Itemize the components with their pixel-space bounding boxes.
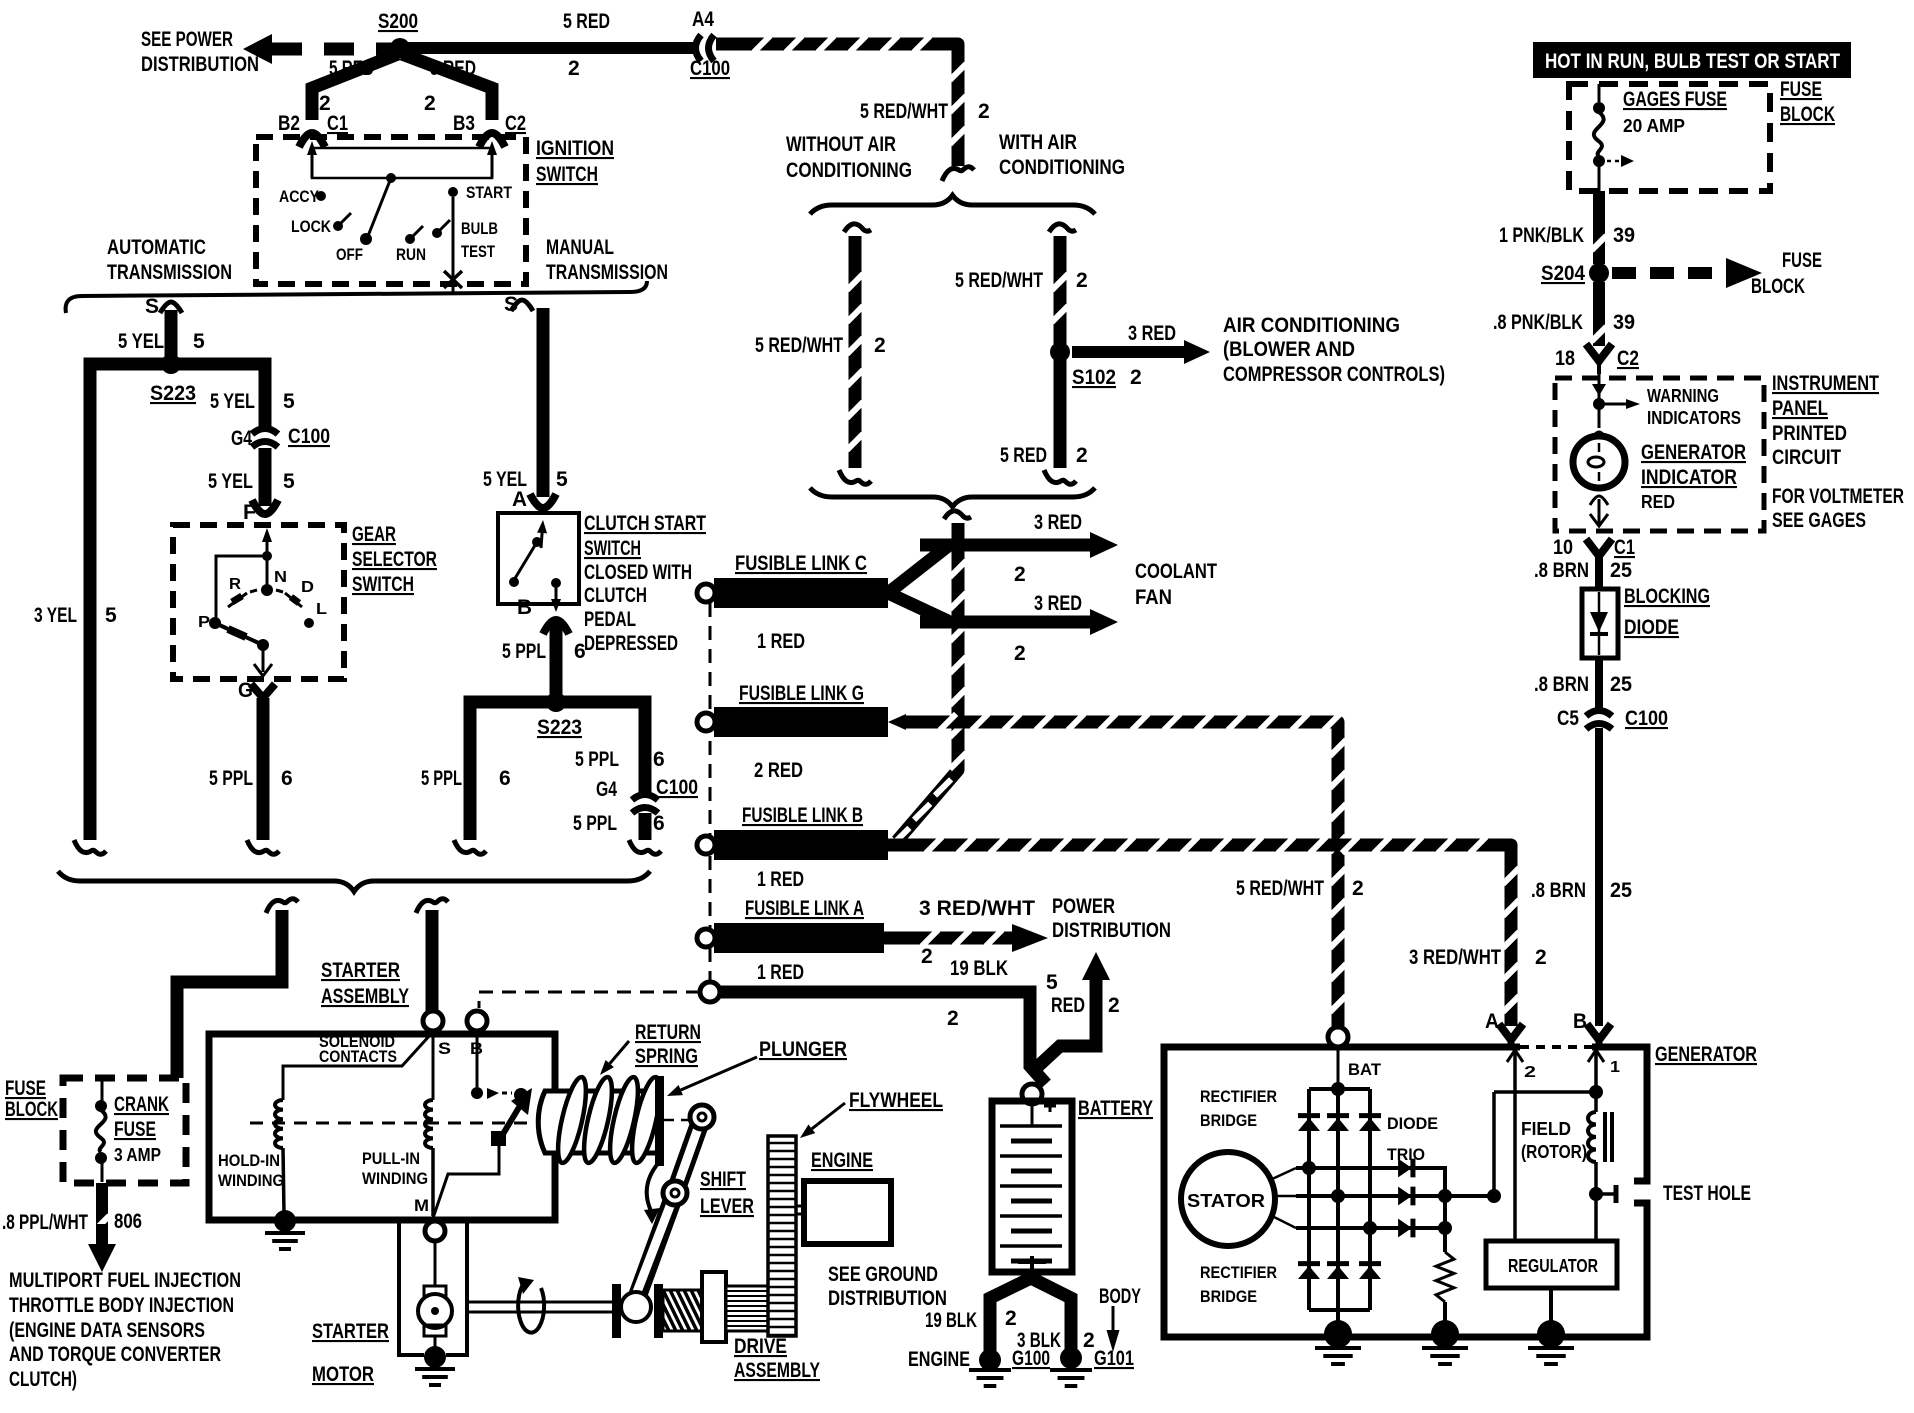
svg-text:L: L	[316, 601, 327, 618]
solenoid linkage dashed	[250, 1122, 538, 1125]
svg-text:39: 39	[1613, 224, 1635, 247]
svg-text:C5: C5	[1557, 707, 1579, 730]
svg-text:N: N	[274, 569, 287, 586]
svg-text:3 RED/WHT: 3 RED/WHT	[919, 897, 1035, 920]
svg-text:5: 5	[283, 470, 295, 493]
wire split to coolant fan arrows	[888, 546, 948, 621]
svg-text:WINDING: WINDING	[362, 1169, 428, 1188]
svg-text:1 RED: 1 RED	[757, 961, 804, 984]
generator box	[1164, 1043, 1757, 1337]
svg-text:MANUAL: MANUAL	[546, 236, 614, 259]
svg-text:5 RED: 5 RED	[329, 57, 374, 80]
fuse block crank fuse box	[5, 1077, 186, 1183]
svg-text:25: 25	[1610, 673, 1632, 696]
svg-text:2: 2	[921, 945, 933, 968]
fusible link C	[697, 552, 888, 653]
svg-text:ASSEMBLY: ASSEMBLY	[734, 1359, 820, 1382]
svg-text:5 RED: 5 RED	[1000, 444, 1047, 467]
svg-text:5 PPL: 5 PPL	[421, 767, 462, 790]
return spring coils	[552, 1075, 665, 1165]
svg-text:S204: S204	[1541, 262, 1585, 285]
svg-text:5 RED: 5 RED	[430, 57, 476, 80]
svg-text:C100: C100	[1625, 707, 1668, 730]
fusible link A	[697, 897, 884, 984]
svg-text:2: 2	[1524, 1064, 1536, 1081]
svg-text:RECTIFIER: RECTIFIER	[1200, 1263, 1277, 1282]
brace AC options bottom	[810, 488, 1095, 507]
svg-text:2: 2	[1014, 642, 1026, 665]
junction fusible links to 19 BLK	[700, 982, 720, 1002]
drive bar	[654, 1284, 663, 1338]
pull-in winding	[362, 1031, 433, 1216]
wire 5 RED/WHT fusible link G to generator BAT	[888, 714, 1364, 1026]
generator indicator lamp	[1573, 432, 1746, 526]
svg-text:BLOCK: BLOCK	[1780, 103, 1835, 126]
svg-text:HOLD-IN: HOLD-IN	[218, 1151, 280, 1170]
clutch start switch box	[498, 512, 706, 655]
svg-text:ASSEMBLY: ASSEMBLY	[321, 985, 409, 1008]
terminal G	[238, 679, 275, 702]
text AIR CONDITIONING BLOWER	[1223, 314, 1445, 386]
svg-text:TEST: TEST	[461, 242, 495, 261]
svg-text:2: 2	[1352, 877, 1364, 900]
svg-text:CONTACTS: CONTACTS	[319, 1047, 397, 1066]
svg-text:M: M	[414, 1196, 429, 1215]
text MULTIPORT FUEL INJECTION block	[9, 1269, 241, 1391]
splice S200	[378, 10, 418, 58]
text WITH AIR CONDITIONING	[999, 131, 1125, 179]
terminal S manual	[504, 293, 533, 316]
svg-text:(ENGINE DATA SENSORS: (ENGINE DATA SENSORS	[9, 1319, 205, 1342]
plunger end plate	[655, 1076, 664, 1166]
svg-text:FUSE: FUSE	[1782, 249, 1822, 272]
svg-text:SHIFT: SHIFT	[700, 1168, 746, 1191]
terminal F	[243, 500, 278, 524]
test hole	[1589, 1182, 1751, 1205]
svg-text:RETURN: RETURN	[635, 1021, 701, 1044]
drive pivot ball	[621, 1292, 651, 1322]
svg-text:SELECTOR: SELECTOR	[352, 548, 437, 571]
svg-text:DIODE: DIODE	[1624, 616, 1679, 639]
terminal S automatic	[145, 295, 182, 318]
text SOLENOID CONTACTS	[319, 1032, 397, 1066]
svg-text:C100: C100	[656, 776, 698, 799]
svg-text:C2: C2	[1617, 347, 1639, 370]
svg-text:5 PPL: 5 PPL	[502, 640, 546, 663]
svg-text:B: B	[1573, 1010, 1587, 1033]
svg-text:20 AMP: 20 AMP	[1623, 116, 1685, 136]
svg-text:ACCY: ACCY	[279, 187, 320, 206]
text DRIVE ASSEMBLY	[734, 1335, 820, 1382]
svg-text:G4: G4	[596, 778, 617, 801]
svg-text:SEE POWER: SEE POWER	[141, 28, 233, 51]
drive flange	[612, 1284, 621, 1338]
svg-text:OFF: OFF	[336, 245, 363, 264]
solenoid moving contact	[433, 1088, 532, 1218]
svg-text:INSTRUMENT: INSTRUMENT	[1772, 372, 1879, 395]
svg-text:3 AMP: 3 AMP	[114, 1145, 161, 1165]
ignition switch box	[256, 137, 614, 284]
svg-text:10: 10	[1553, 536, 1573, 559]
terminal BAT	[1328, 1027, 1382, 1079]
svg-text:3 RED: 3 RED	[1128, 322, 1176, 345]
svg-text:SWITCH: SWITCH	[352, 573, 414, 596]
linkage plunger to shift lever	[664, 1119, 700, 1122]
drive clutch hatched	[635, 1290, 739, 1331]
svg-text:G101: G101	[1094, 1347, 1134, 1370]
terminal B3 C2	[453, 112, 526, 147]
svg-text:GENERATOR: GENERATOR	[1655, 1043, 1757, 1066]
svg-text:S102: S102	[1072, 366, 1116, 389]
svg-text:FUSIBLE LINK C: FUSIBLE LINK C	[735, 552, 867, 575]
svg-text:B3: B3	[453, 112, 475, 135]
text SEE GROUND DISTRIBUTION	[828, 1263, 947, 1310]
svg-text:TEST HOLE: TEST HOLE	[1663, 1182, 1751, 1205]
svg-text:FUSE: FUSE	[5, 1077, 46, 1100]
wire 5 RED/WHT center to fusible link B	[893, 511, 971, 844]
svg-text:FLYWHEEL: FLYWHEEL	[849, 1089, 943, 1112]
starter motor housing	[399, 1222, 467, 1355]
fusible link B	[697, 804, 888, 891]
svg-text:AIR CONDITIONING: AIR CONDITIONING	[1223, 314, 1400, 337]
svg-text:A: A	[512, 488, 527, 511]
text FLYWHEEL	[800, 1089, 943, 1138]
svg-text:PANEL: PANEL	[1772, 397, 1828, 420]
svg-text:5 PPL: 5 PPL	[575, 748, 619, 771]
terminal S starter	[423, 1011, 451, 1058]
svg-text:.8 BRN: .8 BRN	[1534, 559, 1589, 582]
hook to starter S wire	[416, 899, 448, 913]
svg-text:HOT IN RUN, BULB TEST OR START: HOT IN RUN, BULB TEST OR START	[1545, 50, 1840, 73]
svg-text:P: P	[198, 614, 210, 631]
svg-text:2: 2	[978, 100, 990, 123]
svg-text:.8 BRN: .8 BRN	[1531, 879, 1586, 902]
svg-text:FIELD: FIELD	[1521, 1119, 1571, 1139]
svg-text:SWITCH: SWITCH	[584, 537, 641, 560]
svg-text:BLOCKING: BLOCKING	[1624, 585, 1710, 608]
wire .8 BRN 25 below diode	[1534, 658, 1632, 710]
svg-text:2: 2	[1076, 269, 1088, 292]
svg-text:2: 2	[1083, 1329, 1095, 1352]
arrow 5 RED power distribution up	[1034, 952, 1120, 1070]
svg-text:SPRING: SPRING	[635, 1045, 698, 1068]
svg-text:GEAR: GEAR	[352, 523, 396, 546]
splice S223 manual	[537, 692, 582, 739]
svg-text:POWER: POWER	[1052, 895, 1115, 918]
svg-text:STARTER: STARTER	[312, 1320, 389, 1343]
svg-text:2 RED: 2 RED	[754, 759, 803, 782]
wire to starter S terminal	[426, 910, 439, 1012]
connector G4 C100 manual	[596, 776, 698, 813]
ground rectifier bridge	[1315, 1320, 1361, 1364]
svg-text:PLUNGER: PLUNGER	[759, 1038, 847, 1061]
svg-text:2: 2	[1130, 366, 1142, 389]
svg-text:ENGINE: ENGINE	[908, 1348, 970, 1371]
svg-text:6: 6	[653, 812, 665, 835]
svg-text:PRINTED: PRINTED	[1772, 422, 1847, 445]
fusible link G	[697, 682, 888, 782]
terminal B clutch switch	[517, 596, 569, 634]
svg-text:BLOCK: BLOCK	[5, 1098, 58, 1121]
arrow 3 RED to air conditioning	[1072, 322, 1210, 364]
svg-text:PULL-IN: PULL-IN	[362, 1149, 420, 1168]
wire 5 YEL to S223	[118, 310, 205, 356]
engine box	[796, 1149, 891, 1244]
svg-text:5 YEL: 5 YEL	[118, 330, 164, 353]
wire 5 RED/WHT with AC branch	[955, 224, 1088, 344]
svg-text:BATTERY: BATTERY	[1078, 1097, 1153, 1120]
svg-text:G: G	[238, 679, 253, 702]
wire S line to both transmissions	[66, 281, 647, 313]
terminal A generator	[1485, 1010, 1523, 1047]
wire 5 RED to ignition B2 C1	[312, 54, 398, 120]
svg-text:2: 2	[568, 57, 580, 80]
terminal A clutch switch	[512, 488, 556, 511]
svg-text:RECTIFIER: RECTIFIER	[1200, 1087, 1277, 1106]
svg-text:CIRCUIT: CIRCUIT	[1772, 446, 1841, 469]
text INSTRUMENT PANEL PRINTED CIRCUIT	[1772, 372, 1904, 532]
drive collar	[702, 1272, 726, 1342]
gear selector switch box	[173, 523, 437, 679]
hook to starter solenoid wire	[266, 899, 298, 913]
gear selector internals	[198, 528, 327, 676]
svg-text:WITHOUT AIR: WITHOUT AIR	[786, 133, 896, 156]
svg-text:1 RED: 1 RED	[757, 868, 804, 891]
svg-text:REGULATOR: REGULATOR	[1508, 1256, 1598, 1276]
svg-text:STARTER: STARTER	[321, 959, 400, 982]
svg-text:STATOR: STATOR	[1187, 1191, 1265, 1211]
svg-text:FUSE: FUSE	[114, 1118, 156, 1141]
ground starter motor	[415, 1346, 455, 1385]
svg-text:BRIDGE: BRIDGE	[1200, 1111, 1257, 1130]
shaft rotation arrow	[518, 1277, 544, 1333]
svg-text:5 RED/WHT: 5 RED/WHT	[860, 100, 948, 123]
svg-text:CONDITIONING: CONDITIONING	[786, 159, 912, 182]
svg-text:18: 18	[1555, 347, 1575, 370]
wire 5 RED/WHT from C100 down to brace	[716, 36, 990, 166]
svg-text:2: 2	[874, 334, 886, 357]
svg-text:5: 5	[1046, 971, 1058, 994]
svg-text:GENERATOR: GENERATOR	[1641, 441, 1746, 464]
svg-text:3 RED: 3 RED	[1034, 511, 1082, 534]
stator phase rows	[1296, 1161, 1501, 1252]
svg-text:G100: G100	[1012, 1347, 1050, 1370]
terminal B starter	[467, 1011, 487, 1058]
svg-text:RED: RED	[1641, 492, 1675, 512]
svg-text:CLOSED WITH: CLOSED WITH	[584, 561, 692, 584]
crank fuse	[95, 1079, 169, 1182]
svg-text:5 PPL: 5 PPL	[209, 767, 253, 790]
svg-text:5 YEL: 5 YEL	[210, 390, 255, 413]
svg-text:5 PPL: 5 PPL	[573, 812, 617, 835]
svg-text:BLOCK: BLOCK	[1751, 275, 1805, 298]
connector A4 C100	[690, 8, 730, 80]
hold-in winding	[218, 1034, 431, 1214]
svg-text:S: S	[145, 295, 159, 318]
svg-text:A4: A4	[692, 8, 714, 31]
shift lever rotation arrow	[644, 1160, 661, 1224]
wire 19 BLK to battery	[720, 957, 1046, 1084]
svg-text:SEE GAGES: SEE GAGES	[1772, 509, 1866, 532]
svg-text:IGNITION: IGNITION	[536, 137, 614, 160]
svg-text:3 RED: 3 RED	[1034, 592, 1082, 615]
ignition switch internals	[279, 141, 513, 294]
wire .8 PPL/WHT 806 arrow down	[2, 1183, 142, 1272]
svg-text:5 RED/WHT: 5 RED/WHT	[955, 269, 1043, 292]
svg-text:COMPRESSOR CONTROLS): COMPRESSOR CONTROLS)	[1223, 363, 1445, 386]
wire 1 PNK/BLK	[1499, 191, 1635, 264]
svg-text:1 RED: 1 RED	[757, 630, 805, 653]
svg-text:MOTOR: MOTOR	[312, 1363, 374, 1386]
svg-text:5: 5	[105, 604, 117, 627]
svg-text:BULB: BULB	[461, 219, 498, 238]
ground G101 body	[1050, 1285, 1141, 1386]
svg-text:19 BLK: 19 BLK	[925, 1309, 977, 1332]
svg-text:1 PNK/BLK: 1 PNK/BLK	[1499, 224, 1584, 247]
text MANUAL TRANSMISSION	[546, 236, 668, 284]
svg-text:B2: B2	[278, 112, 300, 135]
connector 18 C2	[1555, 344, 1639, 374]
svg-text:B: B	[517, 596, 532, 619]
fusible link dashed line	[709, 603, 712, 985]
text STARTER ASSEMBLY	[321, 959, 409, 1008]
svg-text:(ROTOR): (ROTOR)	[1521, 1142, 1587, 1162]
starter motor	[312, 1241, 452, 1386]
starter B contact	[471, 1031, 528, 1102]
svg-text:(BLOWER AND: (BLOWER AND	[1223, 338, 1355, 361]
svg-text:R: R	[229, 576, 241, 593]
splice S223 automatic	[150, 354, 196, 405]
svg-text:5: 5	[193, 330, 205, 353]
svg-text:AUTOMATIC: AUTOMATIC	[107, 236, 206, 259]
svg-text:6: 6	[574, 640, 586, 663]
svg-text:ENGINE: ENGINE	[811, 1149, 873, 1172]
wire .8 PNK/BLK	[1493, 282, 1635, 346]
text POWER DISTRIBUTION	[1052, 895, 1171, 942]
svg-text:C100: C100	[288, 425, 330, 448]
svg-text:LOCK: LOCK	[291, 217, 332, 236]
ground regulator	[1528, 1320, 1574, 1364]
flywheel gear rack	[768, 1136, 796, 1336]
connector G4 C100 automatic	[231, 425, 330, 450]
battery negative split to grounds	[990, 1272, 1071, 1352]
text COOLANT FAN	[1135, 560, 1217, 609]
svg-text:FAN: FAN	[1135, 586, 1172, 609]
ground hold-in winding	[265, 1210, 305, 1249]
svg-text:5 RED/WHT: 5 RED/WHT	[1236, 877, 1324, 900]
text SHIFT LEVER	[700, 1168, 754, 1218]
text AUTOMATIC TRANSMISSION	[107, 236, 232, 284]
svg-text:FUSE: FUSE	[1780, 78, 1822, 101]
svg-text:25: 25	[1610, 879, 1632, 902]
svg-text:2: 2	[1005, 1307, 1017, 1330]
svg-text:19 BLK: 19 BLK	[950, 957, 1008, 980]
field rotor circuit	[1494, 1047, 1620, 1241]
svg-text:.8 PNK/BLK: .8 PNK/BLK	[1493, 311, 1583, 334]
dashed arrow S204 to fuse block	[1612, 249, 1822, 298]
svg-text:DISTRIBUTION: DISTRIBUTION	[141, 53, 259, 76]
text PLUNGER	[667, 1038, 847, 1096]
svg-text:TRANSMISSION: TRANSMISSION	[546, 261, 668, 284]
wire to crank fuse	[177, 910, 282, 1078]
blocking diode	[1582, 585, 1710, 658]
svg-text:.8 PPL/WHT: .8 PPL/WHT	[2, 1211, 88, 1234]
starter motor shaft	[467, 1302, 614, 1312]
terminal B generator	[1573, 1010, 1611, 1047]
svg-text:BODY: BODY	[1099, 1285, 1141, 1308]
svg-text:.8 BRN: .8 BRN	[1534, 673, 1589, 696]
svg-text:C1: C1	[327, 112, 348, 135]
wire 5 PPL below G4	[573, 812, 665, 854]
svg-text:6: 6	[499, 767, 511, 790]
arrow 3 RED/WHT to power distribution	[884, 897, 1048, 968]
svg-text:3 RED/WHT: 3 RED/WHT	[1409, 946, 1501, 969]
hook wire end below brace	[942, 167, 974, 181]
svg-text:DISTRIBUTION: DISTRIBUTION	[1052, 919, 1171, 942]
svg-text:1: 1	[1610, 1059, 1620, 1076]
diode trio	[1387, 1114, 1438, 1237]
svg-text:INDICATOR: INDICATOR	[1641, 466, 1737, 489]
fuse block box top right	[1569, 78, 1835, 191]
svg-text:39: 39	[1613, 311, 1635, 334]
svg-text:S223: S223	[537, 716, 582, 739]
svg-text:S223: S223	[150, 382, 196, 405]
svg-text:FUSIBLE LINK B: FUSIBLE LINK B	[742, 804, 863, 827]
text SEE POWER DISTRIBUTION	[141, 28, 259, 76]
svg-text:BRIDGE: BRIDGE	[1200, 1287, 1257, 1306]
svg-text:SEE GROUND: SEE GROUND	[828, 1263, 938, 1286]
svg-text:WINDING: WINDING	[218, 1171, 284, 1190]
splice S102	[1050, 342, 1142, 389]
svg-text:RED: RED	[1051, 994, 1085, 1017]
battery positive terminal	[1022, 1084, 1042, 1104]
svg-text:COOLANT: COOLANT	[1135, 560, 1217, 583]
banner HOT IN RUN BULB TEST OR START	[1533, 42, 1851, 78]
starter solenoid box	[209, 1034, 555, 1220]
gages fuse 20 AMP	[1593, 84, 1727, 191]
svg-text:FUSIBLE LINK G: FUSIBLE LINK G	[739, 682, 864, 705]
svg-text:DEPRESSED: DEPRESSED	[584, 632, 678, 655]
svg-text:GAGES FUSE: GAGES FUSE	[1623, 88, 1727, 111]
text RETURN SPRING	[600, 1021, 701, 1075]
svg-text:MULTIPORT FUEL INJECTION: MULTIPORT FUEL INJECTION	[9, 1269, 241, 1292]
svg-text:3 YEL: 3 YEL	[34, 604, 77, 627]
regulator	[1486, 1241, 1617, 1330]
svg-text:FOR VOLTMETER: FOR VOLTMETER	[1772, 485, 1904, 508]
connector 10 C1	[1553, 536, 1635, 559]
wire 3 YEL branch	[34, 364, 171, 854]
arrow 3 RED coolant fan upper	[920, 511, 1118, 586]
resistor diode trio to ground	[1436, 1252, 1454, 1330]
svg-text:TRANSMISSION: TRANSMISSION	[107, 261, 232, 284]
wire .8 BRN 25 above diode	[1534, 552, 1632, 589]
svg-text:5 RED: 5 RED	[563, 10, 610, 33]
connector C5 C100	[1557, 707, 1668, 730]
wire 5 YEL to G4 C100	[171, 364, 295, 428]
wire 3 RED/WHT fusible link B to generator A	[888, 837, 1547, 1026]
wire 5 PPL left branch	[421, 702, 556, 854]
svg-text:D: D	[301, 579, 314, 596]
wire dashed arrow to power distribution	[243, 34, 392, 64]
terminal B2 C1	[278, 112, 348, 147]
splice S204	[1541, 262, 1609, 285]
stator	[1181, 1152, 1296, 1246]
svg-text:S200: S200	[378, 10, 418, 33]
svg-text:6: 6	[281, 767, 293, 790]
svg-text:DIODE: DIODE	[1387, 1114, 1438, 1133]
svg-text:DRIVE: DRIVE	[734, 1335, 787, 1358]
wire 5 PPL gear selector down	[209, 698, 293, 854]
